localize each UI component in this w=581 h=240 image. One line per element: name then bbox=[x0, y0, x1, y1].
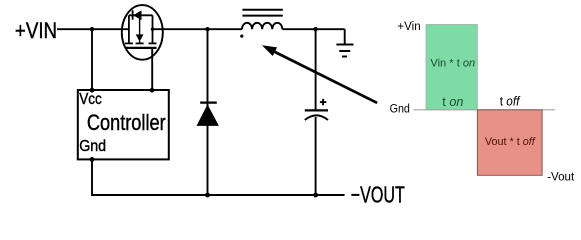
svg-text:t on: t on bbox=[442, 94, 463, 109]
svg-text:+VIN: +VIN bbox=[15, 18, 57, 43]
svg-text:Controller: Controller bbox=[87, 111, 166, 135]
svg-text:+Vin: +Vin bbox=[397, 19, 420, 33]
svg-text:Vcc: Vcc bbox=[79, 91, 102, 108]
svg-text:Gnd: Gnd bbox=[79, 137, 106, 155]
svg-text:−VOUT: −VOUT bbox=[351, 183, 405, 205]
svg-text:-Vout: -Vout bbox=[547, 169, 575, 183]
svg-text:Vin * t on: Vin * t on bbox=[430, 58, 475, 70]
svg-text:Vout * t off: Vout * t off bbox=[485, 136, 536, 148]
svg-text:Gnd: Gnd bbox=[390, 103, 410, 116]
svg-text:t off: t off bbox=[500, 94, 521, 109]
